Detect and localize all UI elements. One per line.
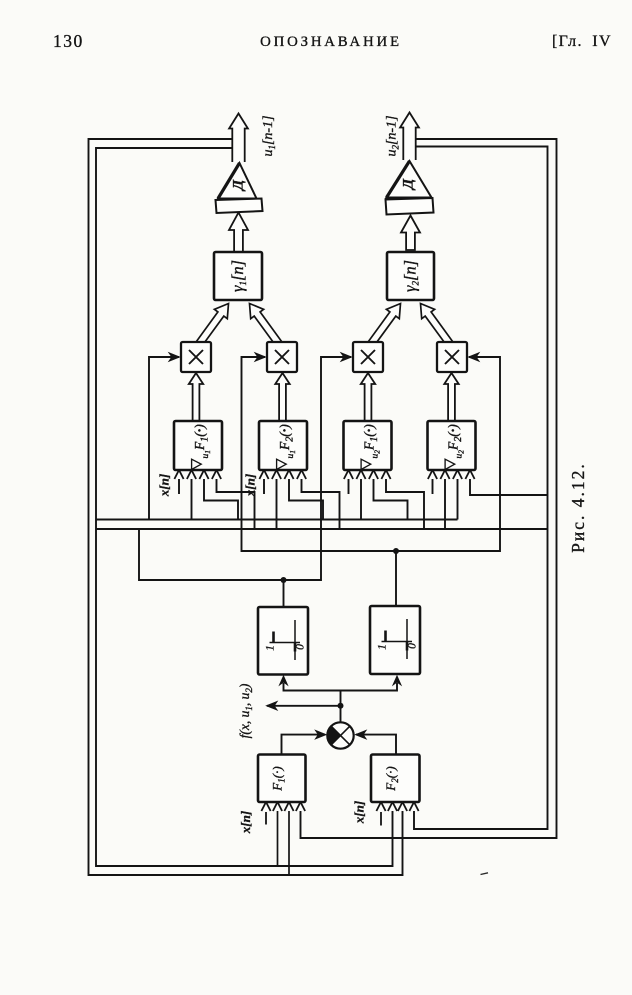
svg-text:x[n]: x[n] bbox=[238, 811, 253, 834]
svg-text:Д: Д bbox=[401, 178, 417, 191]
svg-text:u2​[n-1]: u2​[n-1] bbox=[385, 115, 401, 156]
svg-text:F1​(·): F1​(·) bbox=[270, 766, 287, 791]
svg-text:x[n]: x[n] bbox=[157, 474, 172, 497]
svg-text:[Гл. IV: [Гл. IV bbox=[552, 33, 612, 50]
svg-text:0: 0 bbox=[407, 643, 419, 649]
svg-text:x[n]: x[n] bbox=[352, 801, 367, 824]
svg-text:x[n]: x[n] bbox=[243, 474, 258, 497]
svg-text:ОПОЗНАВАНИЕ: ОПОЗНАВАНИЕ bbox=[260, 34, 402, 50]
svg-text:1: 1 bbox=[265, 645, 277, 651]
svg-text:130: 130 bbox=[53, 31, 84, 51]
svg-text:Д: Д bbox=[231, 179, 247, 192]
svg-text:Рис. 4.12.: Рис. 4.12. bbox=[568, 462, 588, 553]
svg-text:γ2​[n]: γ2​[n] bbox=[401, 260, 421, 292]
svg-text:0: 0 bbox=[295, 644, 307, 650]
svg-text:γ1​[n]: γ1​[n] bbox=[228, 260, 248, 292]
svg-text:F2​(·): F2​(·) bbox=[383, 766, 400, 791]
svg-text:u1​[n-1]: u1​[n-1] bbox=[261, 115, 277, 156]
svg-text:1: 1 bbox=[377, 644, 389, 650]
